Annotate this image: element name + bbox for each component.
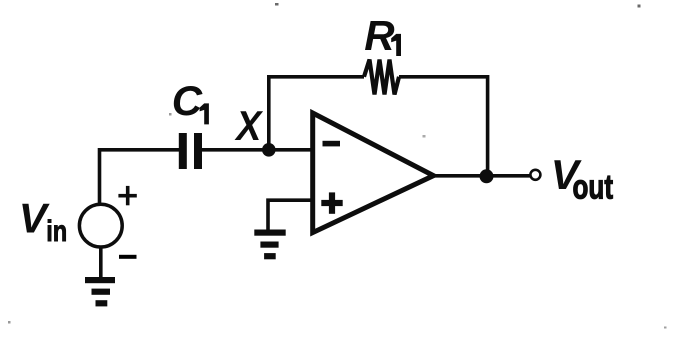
ground (below V_in) — [85, 277, 115, 306]
wire: capacitor right plate to op-amp inverting input — [202, 148, 314, 152]
node: output junction dot — [480, 169, 494, 183]
svg-text:X: X — [234, 102, 263, 149]
op-amp U1 triangle — [313, 113, 434, 233]
source V_in plus polarity mark — [118, 186, 136, 205]
svg-text:C: C — [172, 77, 203, 124]
source V_in circle — [79, 204, 122, 247]
svg-text:out: out — [573, 169, 614, 207]
resistor R1 zigzag body — [364, 60, 399, 95]
wire: V_in bottom lead to ground — [99, 247, 103, 279]
wire: resistor R1 right lead, top-right corner, drop to output junction — [399, 77, 488, 177]
svg-text:R: R — [364, 12, 395, 59]
node X junction dot — [262, 143, 276, 157]
op-amp U1 plus input symbol — [321, 192, 342, 213]
wire: input left segment from V_in corner to capacitor left plate — [100, 150, 180, 203]
wire: op-amp noninverting input to its ground riser — [268, 200, 313, 230]
svg-text:in: in — [46, 215, 67, 248]
svg-text:V: V — [19, 195, 50, 242]
op-amp U1 minus input symbol — [323, 141, 341, 147]
source V_in minus polarity mark — [119, 255, 137, 259]
capacitor C1 plates — [179, 133, 202, 169]
wire: op-amp output to open terminal — [432, 174, 530, 178]
ground (op-amp noninverting input) — [254, 230, 285, 260]
wire: feedback riser from node X up and top run to resistor R1 left lead — [269, 77, 364, 150]
output open terminal circle — [530, 170, 540, 180]
